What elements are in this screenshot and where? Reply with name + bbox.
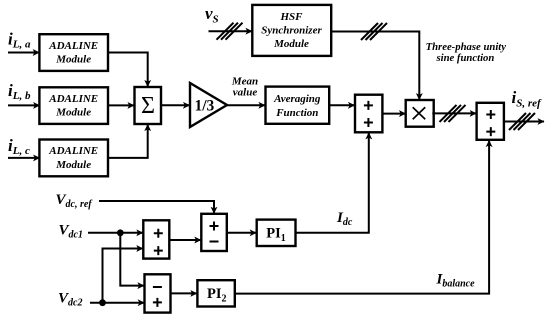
wire sigma to gain (161, 104, 190, 106)
label Mean value (231, 76, 258, 99)
wire Vdc1 to summer C (88, 232, 143, 234)
wire PI2 to summer B (I_balance) (235, 141, 489, 294)
block ADALINE Module (phase a) (39, 34, 108, 71)
svg-text:1/3: 1/3 (195, 98, 215, 115)
wire subtractor2 to PI2 (170, 292, 197, 294)
multiplier block (406, 100, 434, 127)
wire vS to HSF with slash (209, 30, 253, 32)
block PI2 (197, 280, 234, 306)
wire gain to averaging (227, 104, 265, 106)
wire b to sigma (108, 104, 134, 106)
block ADALINE Module (phase b) (39, 87, 108, 124)
svg-text:Synchronizer: Synchronizer (261, 24, 322, 36)
wire summer A to multiplier (382, 113, 405, 115)
wire PI1 up to summer A (296, 133, 369, 233)
subtractor (+ -) (201, 214, 227, 251)
junction dot on Vdc1 (117, 229, 124, 236)
svg-text:ADALINE: ADALINE (48, 145, 98, 157)
slash marks on HSF output wire (361, 23, 387, 40)
wire Vdc2 dot up to summer C second input (103, 249, 143, 303)
output wire i_S,ref with slash (504, 121, 544, 123)
svg-text:Averaging: Averaging (273, 93, 321, 105)
label Three-phase unity sine function (426, 41, 507, 64)
svg-text:ADALINE: ADALINE (48, 40, 98, 52)
wire multiplier to summer B with slash (432, 112, 476, 114)
wire Vdc,ref to subtractor (99, 201, 214, 213)
wire HSF to multiplier (331, 32, 419, 100)
svg-text:Module: Module (55, 107, 91, 119)
wire subtractor to PI1 (227, 232, 256, 234)
svg-text:Module: Module (273, 38, 309, 50)
wire averaging to summer A (329, 104, 354, 106)
slash marks on vS wire (217, 23, 243, 40)
svg-text:Function: Function (275, 107, 318, 119)
wire a to sigma (108, 53, 148, 87)
block HSF Synchronizer Module (252, 5, 331, 56)
slash marks on multiplier output (440, 105, 466, 122)
wire input c (8, 157, 40, 159)
summer A (+ +) (355, 95, 382, 133)
svg-text:value: value (233, 87, 258, 99)
block PI1 (257, 220, 296, 246)
svg-text:sine function: sine function (435, 52, 494, 64)
junction dot on Vdc2 (99, 299, 106, 306)
wire input a (8, 52, 39, 54)
summer C (+ +) (143, 220, 169, 258)
wire summer C to subtractor (169, 239, 201, 241)
slash marks on output wire (509, 113, 535, 130)
wire Vdc2 to subtractor2 plus input (90, 302, 144, 304)
wire input b (8, 104, 40, 106)
svg-text:HSF: HSF (279, 11, 303, 23)
svg-text:ADALINE: ADALINE (48, 93, 98, 105)
block Averaging Function (266, 87, 330, 124)
svg-text:Module: Module (55, 54, 91, 66)
wire c to sigma (108, 125, 148, 158)
gain block 1/3 (190, 83, 227, 127)
svg-text:Σ: Σ (141, 93, 155, 119)
wire Vdc1 dot down to subtractor2 minus input (120, 233, 144, 286)
svg-text:Module: Module (55, 159, 91, 171)
summation block sigma (135, 87, 162, 124)
block ADALINE Module (phase c) (39, 140, 108, 177)
summer B (+ +) (477, 103, 504, 140)
subtractor2 (- +) (145, 274, 171, 312)
